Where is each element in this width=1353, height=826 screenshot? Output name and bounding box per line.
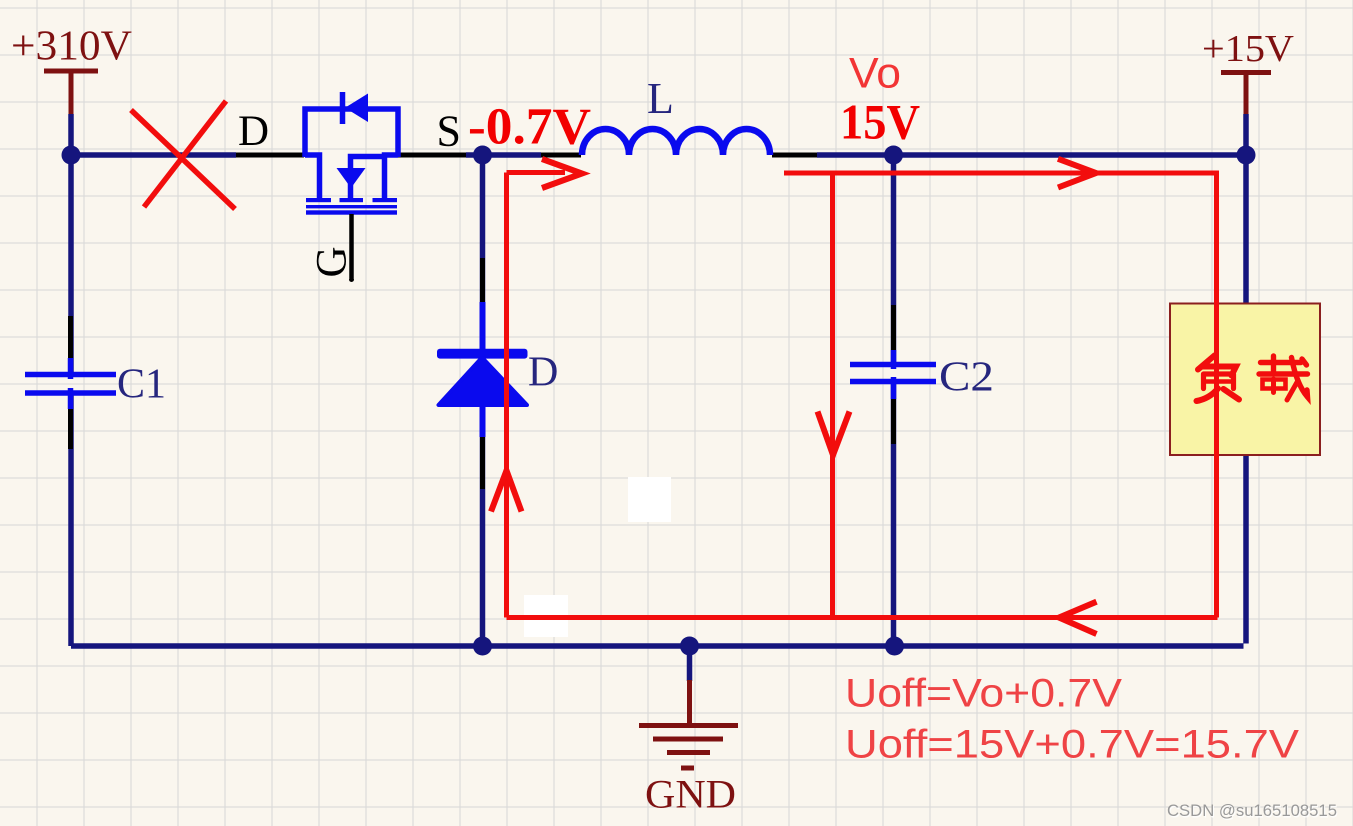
svg-text:L: L [647, 74, 674, 123]
svg-text:Vo: Vo [849, 50, 901, 98]
svg-text:S: S [437, 107, 461, 156]
svg-text:D: D [238, 108, 269, 155]
svg-text:+310V: +310V [11, 24, 132, 70]
svg-text:-0.7V: -0.7V [468, 99, 591, 156]
svg-text:Uoff=15V+0.7V=15.7V: Uoff=15V+0.7V=15.7V [845, 723, 1299, 767]
svg-text:D: D [528, 350, 558, 396]
svg-text:15V: 15V [840, 94, 920, 150]
svg-text:Uoff=Vo+0.7V: Uoff=Vo+0.7V [845, 672, 1122, 716]
svg-text:G: G [309, 246, 356, 277]
svg-text:+15V: +15V [1202, 28, 1295, 70]
svg-text:CSDN @su165108515: CSDN @su165108515 [1167, 802, 1337, 820]
svg-text:C2: C2 [939, 355, 994, 401]
svg-text:C1: C1 [117, 362, 166, 408]
svg-text:GND: GND [645, 772, 736, 817]
